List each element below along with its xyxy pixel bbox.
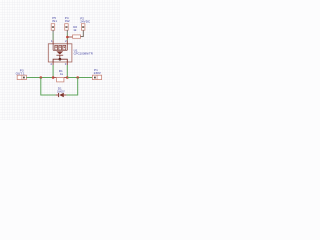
connector P3 label [16, 68, 25, 75]
wire P3 to node [26, 77, 53, 79]
U1 pin 4 stub [52, 62, 54, 65]
terminal P5 label [52, 16, 57, 23]
resistor R2 [73, 35, 81, 38]
terminal P4 label [65, 16, 70, 23]
op-to relay U1 box [48, 44, 72, 62]
junction at pin3 [66, 76, 69, 79]
U1 pin 3 stub [66, 62, 68, 65]
junction at pin4 [52, 76, 55, 79]
junction at loop right [76, 76, 79, 79]
junction at loop left [40, 76, 43, 79]
svg-text:OUT 1: OUT 1 [16, 71, 25, 75]
svg-text:230V: 230V [94, 71, 102, 75]
terminal P5 [51, 24, 55, 31]
terminal P4 [65, 24, 69, 31]
wire pin3 down [66, 65, 68, 78]
terminal P2 [81, 24, 85, 31]
resistor R1 stubs [53, 77, 67, 79]
wire loop left [41, 78, 56, 96]
svg-text:24VDC: 24VDC [80, 20, 91, 24]
U1 pin 1 stub [52, 40, 54, 44]
wire P4 to U1 pin 2 [66, 30, 68, 40]
wire junction to R2 [67, 36, 72, 38]
svg-text:IN2: IN2 [65, 19, 70, 23]
wire P5 to U1 pin 1 [52, 30, 54, 40]
wire pin4 down [52, 65, 54, 78]
diode D1 label [57, 87, 65, 94]
U1 internal output LED [56, 51, 63, 59]
svg-text:1k: 1k [73, 28, 77, 32]
diode D1 [56, 93, 67, 97]
svg-text:CPC1008N/TR: CPC1008N/TR [74, 52, 94, 56]
U1 internal bottom bus [53, 59, 67, 62]
wire R2 to P2 [81, 30, 84, 36]
U1 internal input cells [53, 44, 67, 50]
U1 input cell marks [55, 47, 65, 49]
U1 pin 2 stub [66, 40, 68, 44]
resistor R1 [57, 78, 64, 82]
svg-text:IN1: IN1 [52, 19, 57, 23]
resistor R1 label [59, 69, 64, 76]
connector P3 [17, 75, 26, 79]
junction node at pin2/R2 [66, 36, 69, 39]
connector P1 label [94, 68, 102, 75]
resistor R2 label [73, 25, 77, 32]
wire node to P1 [67, 77, 92, 79]
wire loop right [66, 78, 77, 96]
U1 internal junction dot [59, 58, 62, 61]
terminal P2 label [80, 17, 91, 24]
connector P1 [92, 75, 101, 79]
